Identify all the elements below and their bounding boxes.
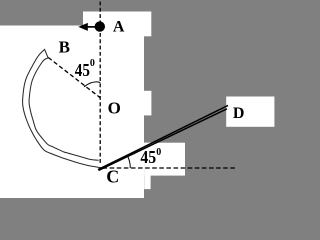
svg-text:45: 45 bbox=[75, 60, 90, 80]
svg-text:0: 0 bbox=[90, 58, 95, 69]
svg-text:B: B bbox=[59, 38, 70, 57]
svg-text:0: 0 bbox=[156, 147, 161, 158]
svg-text:A: A bbox=[113, 19, 125, 36]
svg-text:O: O bbox=[108, 98, 121, 117]
svg-text:45: 45 bbox=[140, 147, 156, 167]
svg-text:C: C bbox=[106, 167, 119, 187]
svg-text:D: D bbox=[233, 105, 245, 122]
